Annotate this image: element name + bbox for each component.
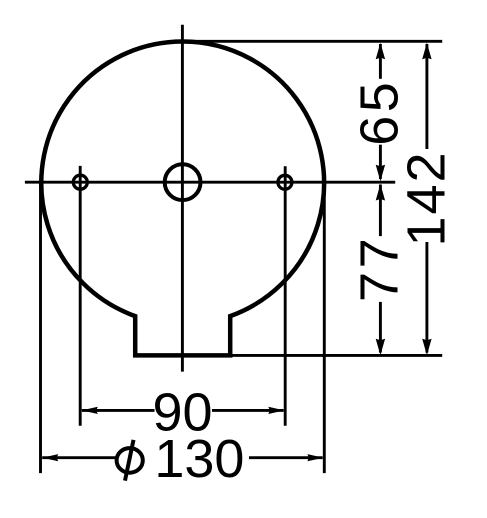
vertical centerline xyxy=(181,25,184,372)
phi130 right extension line xyxy=(323,182,326,473)
left hole extension line xyxy=(79,166,82,426)
dim phi130 shaft left xyxy=(42,456,116,459)
dim 65 arrow down xyxy=(376,165,385,182)
dim 65 arrow up xyxy=(376,43,385,60)
dim 90 shaft right xyxy=(212,409,284,412)
svg-text:65: 65 xyxy=(350,79,410,146)
right hole extension line xyxy=(284,166,287,426)
dim 77 shaft upper xyxy=(379,185,382,237)
dim 90 shaft left xyxy=(82,409,155,412)
dim 142 shaft lower xyxy=(425,242,428,353)
top tangent extension line xyxy=(180,40,442,43)
body outline: circle with bottom tab xyxy=(41,42,324,356)
horizontal centerline xyxy=(25,181,395,184)
dim 142 arrow down xyxy=(422,339,431,356)
dim 65 shaft upper xyxy=(379,44,382,79)
dim phi130 arrow left xyxy=(42,454,58,461)
svg-text:130: 130 xyxy=(154,429,244,489)
dim phi130 shaft right xyxy=(249,456,323,459)
dim phi130 arrow right xyxy=(307,454,323,461)
left hole xyxy=(73,175,87,189)
dim 142 shaft upper xyxy=(425,44,428,149)
dim 77 arrow down xyxy=(376,339,385,356)
dim 77 shaft lower xyxy=(379,302,382,353)
dim 142 arrow up xyxy=(422,43,431,60)
svg-text:142: 142 xyxy=(397,150,457,246)
dim 65 shaft lower xyxy=(379,145,382,179)
center circle xyxy=(165,164,201,200)
dim 90 arrow right xyxy=(268,407,284,414)
tab bottom extension line xyxy=(230,354,442,357)
dim 90 arrow left xyxy=(82,407,98,414)
dim 77 arrow up xyxy=(376,184,385,201)
phi symbol xyxy=(117,448,143,473)
phi130 left extension line xyxy=(39,182,42,473)
right hole xyxy=(278,175,292,189)
